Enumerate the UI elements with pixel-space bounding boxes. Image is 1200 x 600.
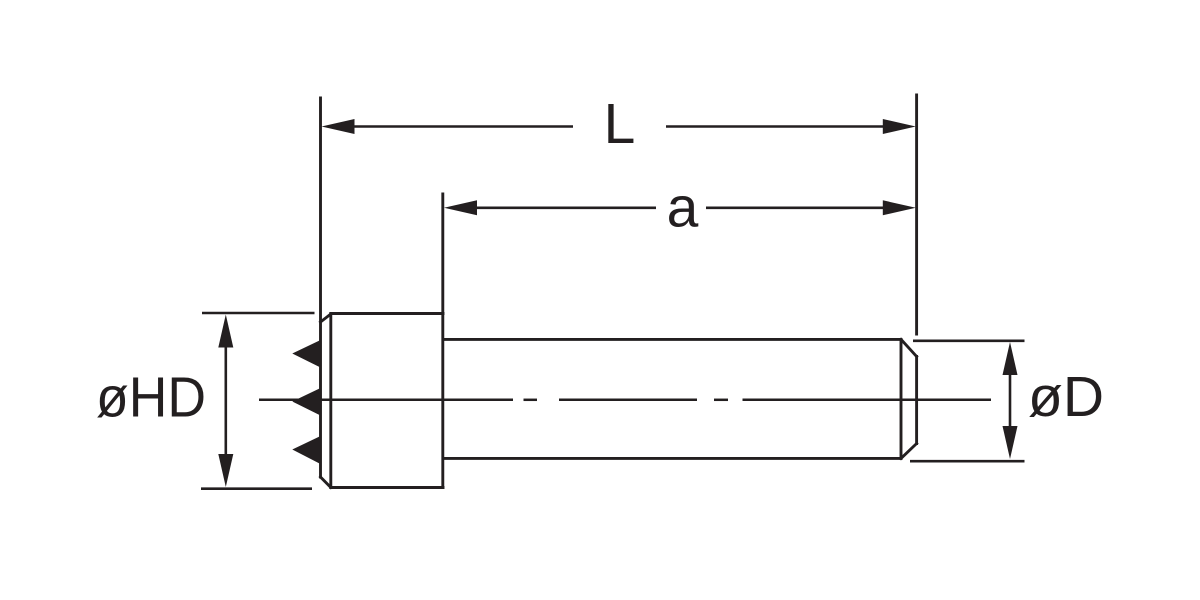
svg-text:øD: øD: [1028, 365, 1104, 429]
svg-text:øHD: øHD: [96, 366, 206, 430]
svg-text:L: L: [604, 92, 636, 156]
svg-text:a: a: [667, 175, 699, 239]
